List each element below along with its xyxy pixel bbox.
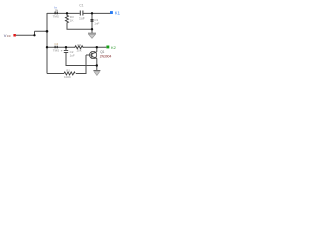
svg-text:R2: R2 xyxy=(77,43,81,47)
wire top rail xyxy=(47,12,110,14)
junction dot ground net 1 xyxy=(91,28,93,30)
capacitor C3 xyxy=(91,18,100,25)
svg-text:1uF: 1uF xyxy=(79,17,85,21)
component C4 (tiny series part on mid rail) xyxy=(53,42,59,52)
svg-text:1nF: 1nF xyxy=(94,21,99,25)
wire base branch xyxy=(85,55,87,73)
svg-text:C1: C1 xyxy=(79,3,83,7)
svg-text:Q1: Q1 xyxy=(100,50,104,54)
junction dot bus mid rail xyxy=(46,46,48,48)
svg-text:1K: 1K xyxy=(70,19,74,23)
junction dot C3 top xyxy=(91,12,93,14)
capacitor C1 xyxy=(79,3,85,20)
wire mid rail xyxy=(47,46,106,48)
wire resistor R3 bottom to ground node xyxy=(67,24,92,29)
capacitor C2 xyxy=(61,47,75,57)
junction dot bus Vcc tap xyxy=(46,30,49,33)
svg-text:1uF: 1uF xyxy=(70,53,75,57)
resistor R3 xyxy=(66,15,74,25)
svg-text:cc: cc xyxy=(7,33,11,38)
svg-text:+: + xyxy=(61,49,63,53)
resistor R1 xyxy=(64,69,75,79)
ground symbol GND1 xyxy=(88,33,96,38)
wire emitter stub xyxy=(96,58,98,70)
svg-text:TMS: TMS xyxy=(53,14,59,18)
wire Vcc branch xyxy=(16,31,47,35)
wire C3 vertical segment xyxy=(91,13,93,33)
transistor Q1 xyxy=(86,50,112,59)
svg-text:K1: K1 xyxy=(115,11,120,16)
wire bottom rail xyxy=(47,72,87,74)
junction dot resistor R3 top xyxy=(66,12,68,14)
port Vcc xyxy=(4,33,16,38)
svg-text:K2: K2 xyxy=(111,45,117,50)
svg-text:2N3904: 2N3904 xyxy=(100,55,112,59)
wire main vertical bus xyxy=(46,13,48,73)
svg-text:R1: R1 xyxy=(66,69,70,73)
svg-text:10K: 10K xyxy=(76,48,81,52)
svg-text:In: In xyxy=(54,5,57,9)
wire C2 bottom across to emitter node xyxy=(66,52,97,65)
wire collector stub xyxy=(96,47,98,52)
ground symbol GND2 xyxy=(93,71,100,76)
svg-text:100K: 100K xyxy=(64,75,71,79)
component D1 (tiny series part on top rail) xyxy=(53,5,59,18)
junction dot emitter node xyxy=(96,64,98,66)
resistor R2 xyxy=(74,43,84,52)
junction dot C2 top xyxy=(65,46,67,48)
junction dot Vcc corner xyxy=(33,34,35,36)
svg-text:C4: C4 xyxy=(54,42,58,46)
port K2 xyxy=(106,45,116,50)
port K1 xyxy=(110,11,121,16)
svg-text:TMS: TMS xyxy=(53,48,59,52)
junction dot collector node xyxy=(96,46,98,48)
